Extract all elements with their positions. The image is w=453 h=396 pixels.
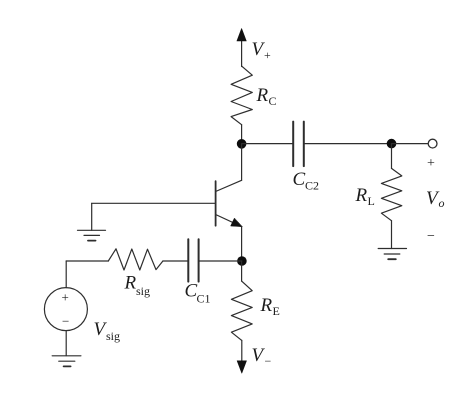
svg-text:C2: C2 [305, 179, 319, 193]
svg-text:L: L [368, 194, 375, 208]
wire CC1 to emitter node [199, 260, 242, 262]
resistor Rsig [108, 249, 163, 270]
capacitor CC1 [188, 239, 198, 281]
resistor RC [231, 66, 252, 125]
wire collector node to CC2 [242, 143, 293, 145]
wire Rsig to CC1 [163, 260, 188, 262]
svg-text:+: + [427, 156, 435, 171]
svg-text:R: R [355, 185, 368, 206]
source Vsig [44, 288, 87, 331]
label RE [260, 295, 280, 318]
terminal open circle [428, 139, 437, 148]
power V- arrow [237, 340, 246, 373]
svg-text:sig: sig [106, 329, 120, 343]
svg-text:−: − [265, 354, 272, 368]
label RL [355, 185, 375, 208]
node collector [237, 139, 247, 149]
svg-text:o: o [439, 196, 445, 210]
node emitter [237, 256, 247, 266]
wire Vsig to Rsig [66, 261, 108, 288]
ground at base [78, 230, 106, 240]
label Vo [426, 188, 445, 210]
wire Vsig to ground [65, 331, 67, 356]
ground at RL [378, 249, 406, 260]
svg-text:C: C [293, 169, 306, 190]
label Rsig [124, 273, 151, 299]
svg-text:R: R [124, 273, 137, 294]
transistor Q1 [216, 180, 243, 226]
resistor RE [231, 261, 252, 340]
resistor RL [381, 168, 401, 220]
svg-text:R: R [256, 85, 269, 106]
label CC2 [293, 169, 320, 193]
node output [387, 139, 397, 149]
wire emitter vertical [241, 227, 243, 261]
label V- [252, 345, 272, 368]
wire output node to terminal [392, 143, 429, 145]
power V+ arrow [237, 29, 246, 67]
svg-text:+: + [264, 48, 271, 62]
svg-text:E: E [273, 304, 280, 318]
svg-text:−: − [427, 229, 435, 244]
svg-text:C1: C1 [197, 292, 211, 306]
label Vsig [94, 319, 121, 343]
wire output node to RL [391, 144, 393, 169]
wire base to ground [92, 203, 216, 230]
wire CC2 to output node [304, 143, 392, 145]
svg-text:−: − [62, 314, 69, 329]
svg-text:R: R [260, 295, 273, 316]
svg-text:C: C [269, 94, 277, 108]
label V+ [252, 39, 272, 62]
label RC [256, 85, 277, 108]
svg-text:sig: sig [136, 284, 150, 298]
label CC1 [185, 281, 211, 306]
wire RL to ground [391, 221, 393, 249]
wire collector vertical [241, 144, 243, 181]
capacitor CC2 [293, 122, 304, 167]
wire RC to collector node [241, 125, 243, 144]
svg-text:+: + [62, 290, 69, 305]
svg-text:V: V [252, 345, 266, 366]
ground at Vsig [52, 356, 81, 367]
